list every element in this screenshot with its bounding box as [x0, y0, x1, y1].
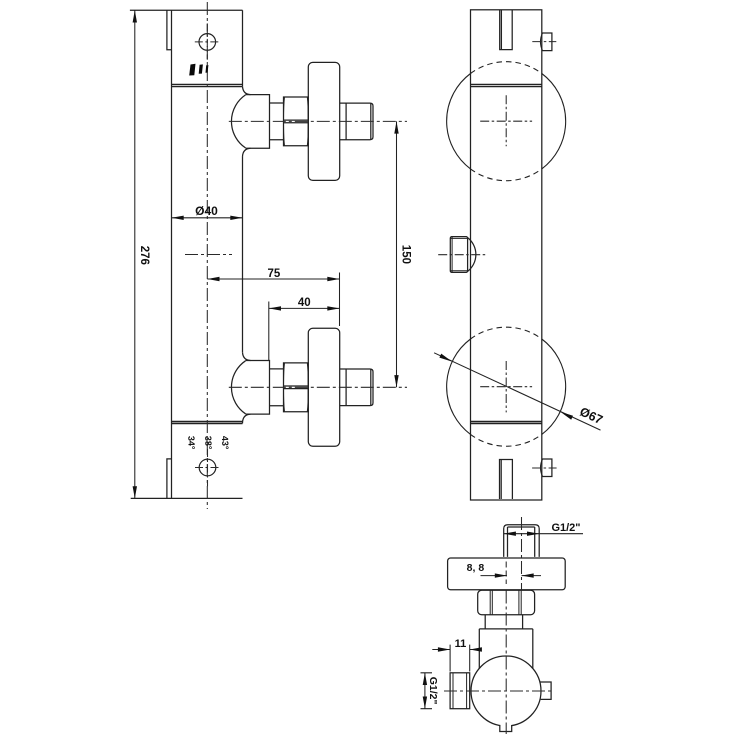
- bell fillet top: [243, 86, 251, 94]
- side circles (BOTTOM, c=506.2,386.7 r=59.6): [447, 327, 566, 446]
- top tab centerline: [532, 41, 556, 43]
- svg-text:11: 11: [455, 638, 467, 650]
- svg-text:G1/2": G1/2": [551, 522, 580, 534]
- front body right edge segments: [242, 10, 244, 423]
- dashed top arc: [471, 62, 542, 74]
- svg-text:276: 276: [138, 246, 150, 265]
- threaded stub: [340, 103, 373, 140]
- front body left edge: [171, 10, 173, 498]
- svg-text:G1/2": G1/2": [427, 677, 439, 705]
- top mounting hole: [199, 34, 216, 51]
- svg-text:8, 8: 8, 8: [467, 562, 485, 574]
- dim 75 line: [207, 278, 339, 280]
- angle labels 34 38 43: [186, 436, 230, 450]
- side circle top crosshair: [480, 95, 532, 146]
- side plate lower double line: [471, 83, 542, 85]
- svg-text:38°: 38°: [203, 436, 213, 450]
- svg-text:43°: 43°: [220, 436, 230, 450]
- dim 40 line: [269, 307, 340, 309]
- neck: [270, 103, 284, 140]
- SIDE VIEW: [450, 10, 552, 500]
- solid left lens arc: [447, 339, 471, 434]
- svg-text:Ø40: Ø40: [195, 204, 218, 218]
- bv outlet stub: [504, 525, 540, 557]
- front top-left tab: [167, 10, 172, 50]
- bell fillet bottom: [243, 148, 251, 156]
- dim G1/2 left (bv): [421, 673, 433, 709]
- bv right tab: [540, 682, 551, 699]
- front bottom edge with dim extension: [131, 497, 243, 499]
- dim 11 (bv): [432, 645, 481, 672]
- bell dome arc: [231, 361, 245, 414]
- logo hash marks on top plate: [189, 64, 208, 76]
- solid right lens arc: [542, 339, 566, 434]
- bv centerlines: [444, 517, 554, 734]
- side bottom-right tab: [542, 459, 552, 477]
- dim O67 diagonal: [434, 353, 600, 430]
- body vertical centerline: [505, 562, 507, 585]
- ext line flange right (x=339.5): [339, 273, 341, 327]
- side mid-left inlet: [450, 237, 467, 273]
- side bottom-right tab arc: [541, 459, 543, 477]
- bell dome arc: [231, 95, 245, 148]
- OUTLET TOP (front view, cy=121.4): [229, 62, 407, 180]
- bv hex nut: [478, 590, 535, 615]
- bv neck: [485, 615, 522, 629]
- handle flange disc (edge-on): [308, 62, 339, 180]
- arrows 150: [394, 121, 398, 133]
- bv bottom notch (mask arc then draw): [500, 722, 511, 728]
- front inlet centerline (short): [185, 254, 232, 256]
- dim 276 line: [134, 10, 136, 498]
- front vertical centerline: [185, 2, 232, 509]
- DIMENSIONS front: [135, 10, 397, 498]
- threaded stub: [340, 369, 373, 406]
- bell body: [246, 361, 270, 415]
- side top-right tab arc: [541, 33, 543, 51]
- bell fillet bottom: [243, 414, 251, 422]
- bottom mounting hole: [199, 459, 216, 476]
- svg-text:150: 150: [400, 245, 412, 264]
- arrows O40: [172, 216, 184, 220]
- svg-text:75: 75: [268, 268, 281, 280]
- side top-right tab: [542, 33, 552, 51]
- dim 8,8 (bv): [481, 575, 542, 577]
- neck: [270, 369, 284, 406]
- bv block: [479, 629, 533, 669]
- OUTLET BOTTOM (front view, cy=387.3): [229, 328, 407, 446]
- side circles (TOP, c=506.2,121.2 r=59.6): [447, 62, 566, 181]
- side small centerlines: [438, 42, 556, 468]
- bottom hole crosshair: [195, 449, 219, 486]
- svg-text:40: 40: [298, 297, 311, 309]
- dim G1/2 top (bv): [504, 533, 583, 535]
- bell fillet top: [243, 352, 251, 360]
- side bottom slot: [500, 460, 513, 500]
- solid left lens arc: [447, 74, 471, 169]
- inlet horizontal centerline: [444, 690, 554, 692]
- hex nut: [284, 97, 309, 146]
- arrows 276: [133, 10, 137, 22]
- mid inlet centerline: [438, 254, 487, 256]
- bv body circle: [471, 656, 541, 726]
- dim O40 line: [172, 217, 243, 219]
- outlet centerline: [229, 386, 407, 388]
- bottom tab centerline: [532, 467, 557, 469]
- front top edge with dim extension: [130, 9, 243, 11]
- hex nut: [284, 363, 309, 412]
- side body outline: [471, 10, 542, 500]
- side bottom plate double line: [471, 420, 542, 422]
- dashed top arc: [471, 327, 542, 339]
- side circle bottom crosshair: [480, 361, 532, 412]
- solid right lens arc: [542, 74, 566, 169]
- top hole crosshair: [195, 23, 220, 59]
- front top plate lower double line: [172, 83, 243, 85]
- dashed bottom arc: [471, 434, 542, 446]
- dim 150 line: [396, 121, 398, 387]
- dashed bottom arc: [471, 169, 542, 181]
- bell body: [246, 95, 270, 149]
- stub centerline: [521, 517, 523, 590]
- bv flange plate: [448, 558, 566, 590]
- side mid-left inlet end cap arc: [468, 238, 476, 272]
- side top slot: [500, 10, 513, 50]
- handle flange disc (edge-on): [308, 328, 339, 446]
- arrows 40: [269, 306, 281, 310]
- BOTTOM VIEW: [448, 525, 566, 726]
- front bottom plate upper double line: [172, 420, 243, 422]
- bv inlet stub left: [450, 673, 470, 709]
- ext line bell right (x=268.8): [268, 302, 270, 361]
- outlet centerline: [229, 120, 407, 122]
- svg-text:34°: 34°: [186, 436, 196, 450]
- arrows 75: [207, 277, 219, 281]
- front bottom-left tab: [167, 459, 172, 499]
